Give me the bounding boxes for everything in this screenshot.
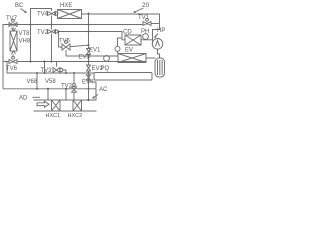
wire EV right to capsule line [146,57,155,59]
wire x3 lower [2,62,4,89]
sensor PQ [104,56,110,62]
wire compressor to capsule [158,49,160,58]
wire x30 vertical [30,25,32,62]
wire bottom rail [34,110,97,112]
svg-text:PQ: PQ [101,66,110,72]
svg-text:AC: AC [99,87,108,93]
svg-text:TV4: TV4 [37,12,49,18]
svg-text:HP: HP [157,28,165,34]
node x88/y56 [87,55,89,57]
arrow BC pointer [21,9,27,14]
sensor PH [143,34,149,40]
node x37/y89 [36,88,38,90]
wire TV7 to vessel [12,27,14,32]
node x52/y62 [50,60,52,62]
node x44.5/y62 [43,60,45,62]
wire CD to PH and onward [141,39,153,41]
wire motor valve to EV rect [117,51,119,53]
node x88/y45 [87,44,89,46]
condenser CD [125,35,141,45]
svg-text:PH: PH [141,29,149,35]
wire TV3 out down to y73 [63,70,66,73]
node x88/y62 [87,60,89,62]
node x88/y31.5 [87,30,89,32]
wire riser from HXE-out node down [88,14,90,25]
wire TV5 right to x88 [70,45,89,46]
node x48/y89 [47,88,49,90]
wire x88 down to coil [88,71,90,100]
node x44.5/y73 [43,72,45,74]
node x74/y73 [73,72,75,74]
svg-text:V68: V68 [27,79,38,85]
svg-text:HXC1: HXC1 [46,113,61,119]
wire TV5 bottom elbow [65,50,67,56]
svg-text:EV: EV [125,48,133,54]
valve TV1 [143,18,151,25]
accumulator [155,58,165,77]
node x88/y100 [87,99,89,101]
wire top rail [34,99,97,101]
wire top elbow x30-x52 y8 [31,9,52,24]
wire TV5 left feed from TV2 node [59,32,62,48]
arrow AC pointer [92,95,98,99]
wire jog x88 to x96 [89,82,97,89]
svg-text:TV3: TV3 [41,68,53,74]
svg-text:BC: BC [15,3,24,9]
wire y56 line to EV rect [66,55,118,57]
heat exchanger HXE [58,10,82,19]
arrow 20 pointer [133,8,144,13]
motor valve on EV inlet [115,46,120,51]
wire TV1 right [151,23,160,25]
svg-text:TV6: TV6 [6,66,18,72]
compressor CP [152,39,163,50]
valve TV3 [53,62,63,73]
air arrow AD [37,101,49,107]
wire y62 main line [3,61,146,63]
duct box [94,73,152,81]
svg-text:EV4: EV4 [82,80,94,86]
node x52/y24 [50,23,52,25]
node x30/y24 [29,23,31,25]
wire TV2 out y33 [58,32,125,40]
arrow HP pointer [154,34,158,39]
heat exchanger EV [118,54,146,63]
wire x7 branch down [7,62,94,74]
valve TV5 [62,41,70,50]
valve TV2b [72,73,77,92]
nozzle bottom of vessel [12,51,16,54]
node x30/y62 [29,60,31,62]
valve TV2 [48,30,58,34]
svg-text:V58: V58 [45,79,56,85]
coil feed wires [48,89,96,100]
node x88/y89 [87,88,89,90]
dash after AD [33,96,41,98]
wire right edge down jog [153,24,160,45]
wire HXE to right edge y13 [82,14,160,24]
valve EV1 [87,49,91,55]
wire vessel to TV6 [12,54,14,57]
node x88/y24 [87,23,89,25]
wire x44.5 connector [44,62,46,74]
wire x88 between nodes [88,25,90,66]
wire TV2 stem [51,25,53,30]
wire y89 header [3,88,96,90]
valve EV4 on x88 [86,75,90,80]
node x66/y73 [65,72,67,74]
svg-text:TV2: TV2 [37,30,49,36]
svg-text:AD: AD [19,96,28,102]
heat exchanger HXC2 [73,100,82,111]
node x88/y73 [87,72,89,74]
wire TV2b down [73,92,75,100]
valve TV4 [48,12,58,16]
nozzle top of vessel [12,28,16,31]
wire TV2 bottom riser x52 [51,34,53,62]
heat exchanger HXC1 [52,100,61,111]
wire y24 main line [3,25,143,62]
node x66/y89 [65,88,67,90]
svg-text:VH8: VH8 [19,38,31,44]
valve TV7 [9,19,17,26]
valve TV6 [9,56,17,63]
node TV2-out x58.6 [58,30,60,32]
svg-text:VT8: VT8 [19,31,31,37]
wire x37 down [36,73,38,89]
valve EV2 [87,65,91,71]
wire branch to EV motor valve [118,38,123,46]
svg-text:HXE: HXE [60,3,72,9]
svg-text:HXC2: HXC2 [68,113,83,119]
node x37/y73 [36,72,38,74]
vessel VH8 [10,31,17,51]
wire TV4 bottom riser [51,16,53,25]
node HXE-out junction [87,12,89,14]
